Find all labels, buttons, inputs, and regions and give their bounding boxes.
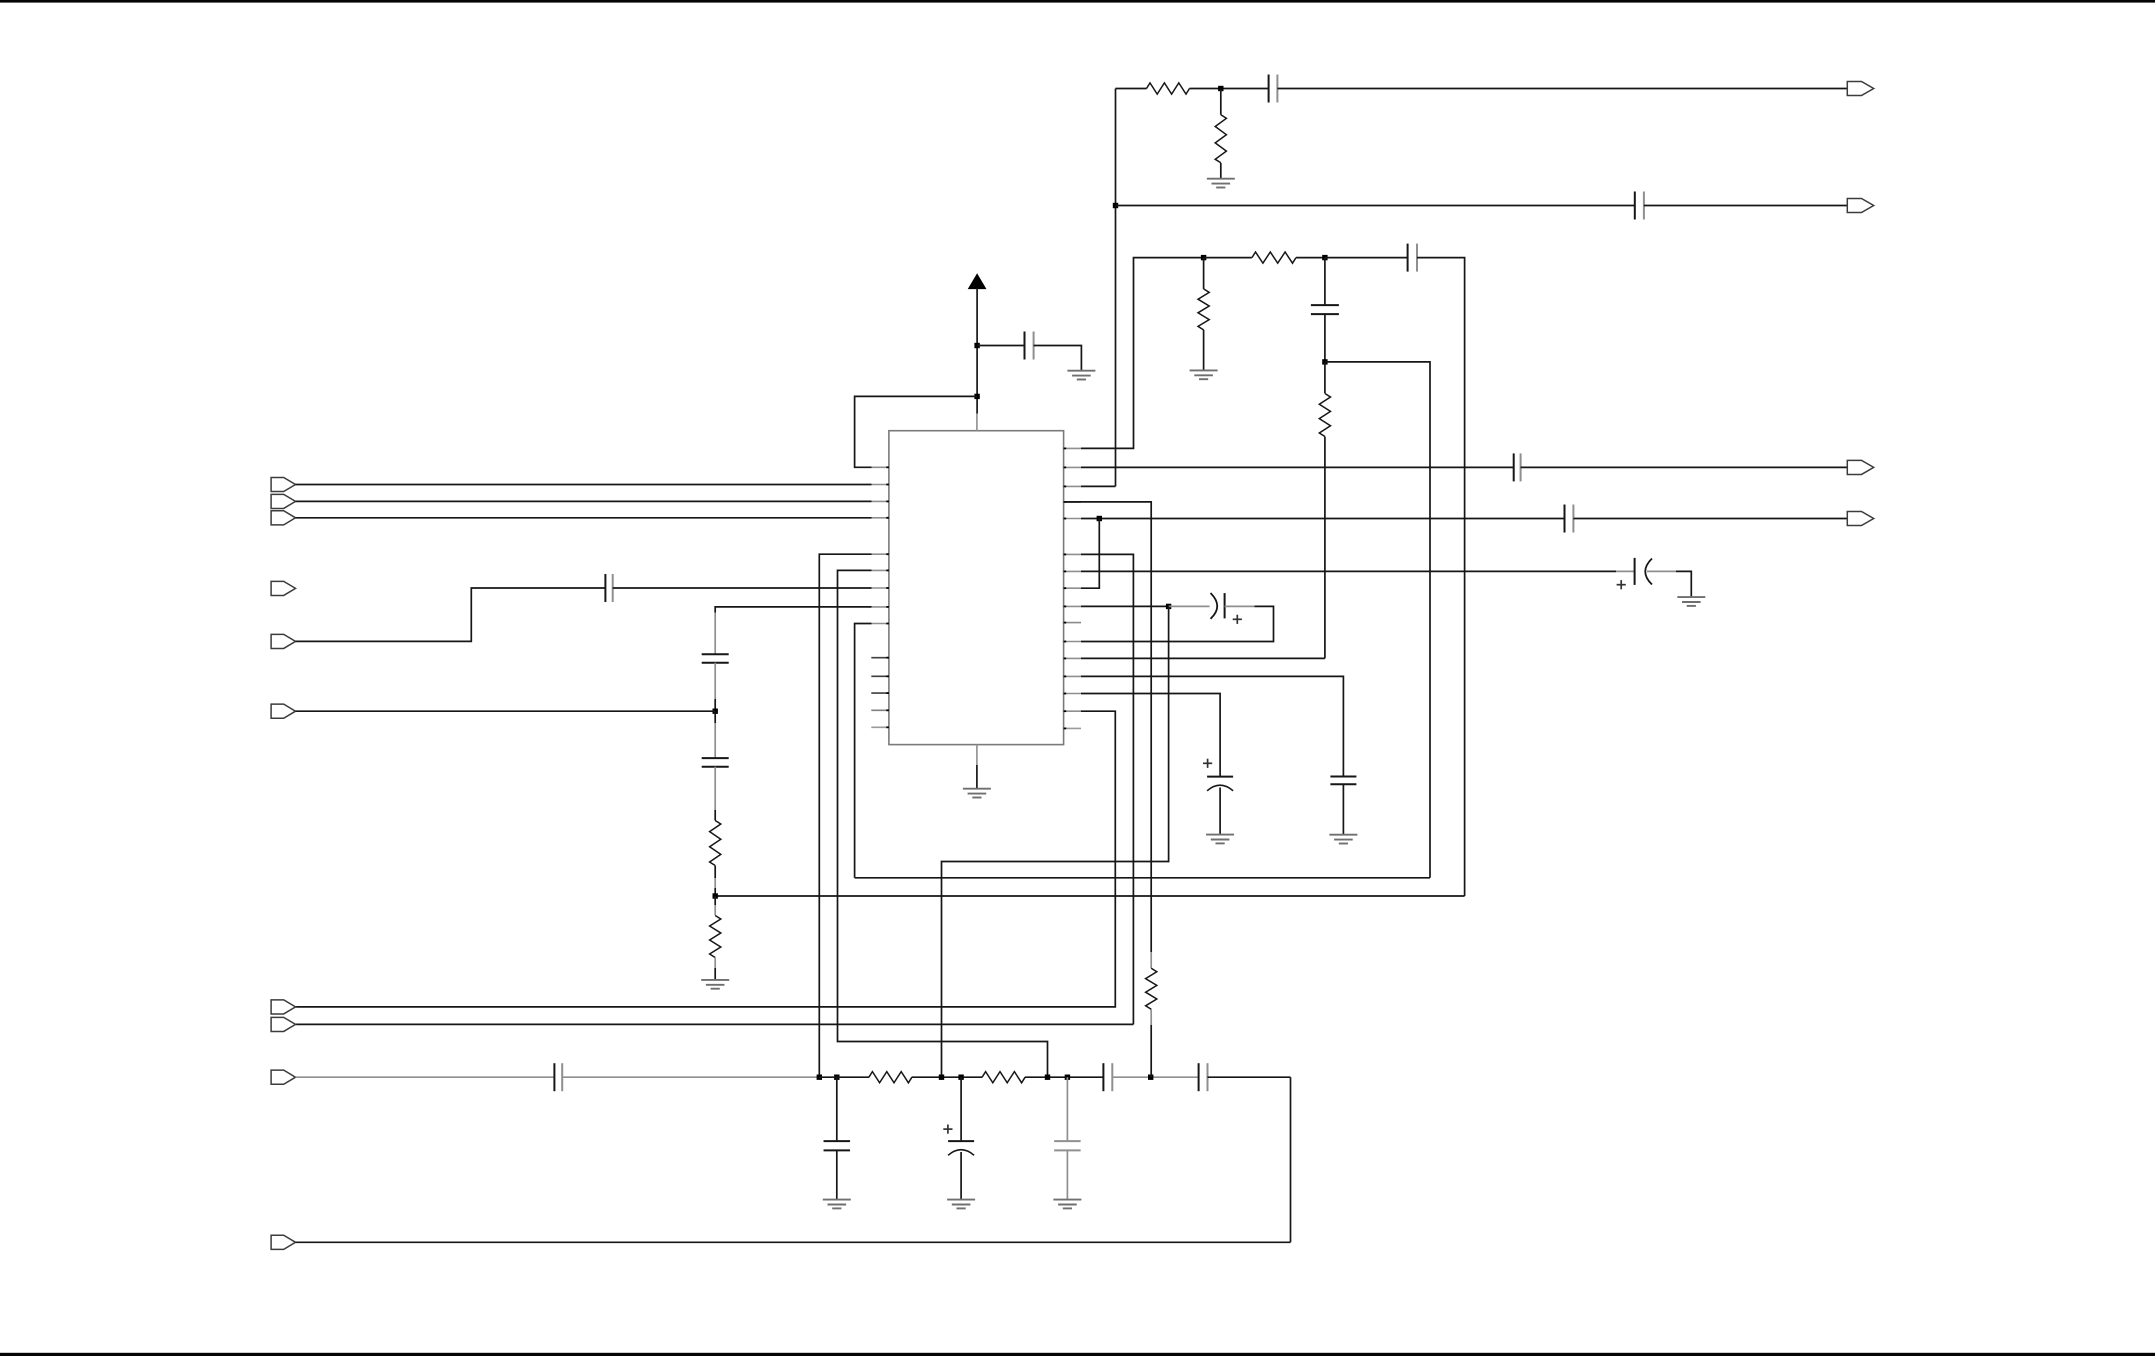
wire loop bottom B	[715, 895, 1464, 897]
wire corner down to P10 line	[1290, 1077, 1292, 1242]
plus label C13	[1203, 759, 1212, 768]
node pin5R junction	[1097, 516, 1102, 521]
IC U1 left pin stubs	[871, 467, 889, 727]
wire C16 to ground	[836, 1150, 838, 1199]
connector P3	[271, 511, 295, 525]
capacitor C2	[1635, 192, 1644, 220]
wire P1 to pin2L	[296, 484, 872, 486]
wire C20 to corner	[1208, 1076, 1291, 1078]
wire bottom seg b	[912, 1076, 983, 1078]
wire C5 to loop right	[1417, 258, 1465, 896]
wire net1 bottom to pin3R	[1081, 485, 1116, 487]
node net3 junction B	[1322, 255, 1327, 260]
wire pin5R to pin8R loop	[1081, 519, 1099, 589]
wire C8 exit gray segment	[1647, 570, 1676, 572]
capacitor C10	[605, 574, 612, 602]
wire C13 to ground	[1219, 788, 1221, 835]
wire pin9L down	[855, 624, 872, 878]
capacitor C5	[1408, 244, 1417, 272]
bottom border bar	[0, 1353, 2155, 1356]
capacitor C15	[554, 1063, 562, 1091]
node divider junction	[713, 893, 718, 898]
node bottom junction 6	[1065, 1075, 1070, 1080]
wire net3 A to R3	[1204, 257, 1252, 259]
capacitor C16	[824, 1077, 851, 1150]
connector P14	[1847, 511, 1873, 525]
wire pin7R to C8	[1081, 570, 1616, 572]
wire C9 loop gray segment	[1225, 605, 1255, 607]
connector P12	[1847, 198, 1873, 212]
node bottom junction 7	[1148, 1075, 1153, 1080]
ground G8	[701, 980, 729, 989]
wire loop bottom A	[855, 877, 1430, 879]
wire P9 to C15	[296, 1076, 555, 1078]
wire IC bottom pin to ground	[976, 765, 978, 789]
wire net1 top	[1116, 88, 1147, 90]
wire P5 riser	[296, 588, 606, 641]
ground G6	[1206, 835, 1234, 844]
wire C14 to ground	[1342, 784, 1344, 835]
wire pin6R down	[1081, 554, 1133, 1024]
capacitor C12	[702, 711, 729, 767]
resistor R7	[710, 896, 721, 980]
wire P6 to column	[296, 710, 716, 712]
connector P5	[271, 634, 295, 648]
wire C7 to output P14	[1573, 518, 1847, 520]
ground G7	[1329, 835, 1357, 844]
plus label C9	[1233, 615, 1242, 624]
ground G1	[1207, 179, 1235, 188]
connector P9	[271, 1070, 295, 1084]
wire VCC junction to pin1L	[855, 396, 978, 467]
wire R1 to C1	[1190, 88, 1269, 90]
ground G2	[1190, 370, 1218, 379]
wire P2 to pin3L	[296, 500, 872, 502]
capacitor C1	[1269, 75, 1278, 103]
node VCC junction 1	[974, 343, 979, 348]
wire R3 to junction B	[1296, 257, 1325, 259]
resistor R4	[1198, 258, 1209, 371]
resistor R10	[982, 1072, 1025, 1083]
wire pin5R to C7	[1081, 518, 1565, 520]
wire C9 loop to pin11R	[1081, 606, 1274, 641]
capacitor C14	[1330, 777, 1356, 785]
capacitor C11	[702, 654, 729, 663]
wire R8 head gray	[1150, 952, 1152, 968]
node pin9R junction	[1166, 604, 1171, 609]
node bottom junction 5	[1045, 1075, 1050, 1080]
capacitor C7	[1565, 505, 1574, 533]
resistor R9	[869, 1072, 912, 1083]
resistor R2	[1215, 89, 1226, 179]
capacitor C18	[1054, 1077, 1081, 1150]
node bottom junction 2	[834, 1075, 839, 1080]
wire P3 to pin4L	[296, 517, 872, 519]
resistor R5	[1319, 362, 1330, 659]
wire pin9R net down	[942, 606, 1169, 1077]
wire column lead gray a	[714, 613, 716, 655]
capacitor C4	[1025, 332, 1034, 360]
connector P8	[271, 1017, 295, 1031]
node net2 junction	[1113, 203, 1118, 208]
wire junction B to C5	[1325, 257, 1408, 259]
plus label C17	[943, 1125, 952, 1134]
ground G10	[947, 1200, 975, 1209]
ground G5	[1677, 597, 1705, 606]
wire pin13R to C14	[1081, 676, 1343, 776]
wire C8 entry gray segment	[1616, 570, 1635, 572]
top border bar	[0, 0, 2155, 3]
wire pin4R down	[1064, 502, 1152, 952]
wire C18 to ground	[1066, 1150, 1068, 1199]
wire bottom seg d	[1112, 1076, 1198, 1078]
connector P10	[271, 1235, 295, 1249]
wire bottom seg a	[819, 1076, 869, 1078]
resistor R6	[710, 767, 721, 896]
wire C1 to output P11	[1277, 88, 1847, 90]
ground G3	[1067, 371, 1095, 380]
resistor R8	[1146, 968, 1157, 1009]
wire C2 to output P12	[1644, 205, 1847, 207]
capacitor C6	[1514, 453, 1521, 481]
wire VCC to C4	[977, 345, 1024, 347]
node net3 junction A	[1201, 255, 1206, 260]
wire C10 to pin7L	[613, 587, 872, 589]
IC U1 body	[889, 431, 1064, 745]
resistor R3	[1252, 252, 1296, 263]
wire pin15R to connector P7	[296, 711, 1116, 1007]
wire C8 to ground	[1676, 571, 1691, 597]
wire C6 to output P13	[1521, 466, 1848, 468]
wire net2 to C2	[1116, 205, 1635, 207]
node bottom junction 4	[958, 1075, 963, 1080]
capacitor C20	[1199, 1063, 1208, 1091]
wire C3 to node C	[1324, 314, 1326, 362]
wire C15 to network	[562, 1076, 819, 1078]
wire pin5L down	[819, 554, 871, 1077]
connector P6	[271, 704, 295, 718]
wire C4 to ground	[1034, 346, 1082, 371]
ground G9	[823, 1200, 851, 1209]
wire pin6L down	[838, 570, 1048, 1077]
wire pin2R to C6	[1081, 466, 1514, 468]
connector P1	[271, 477, 295, 491]
wire node to C9	[1169, 605, 1210, 607]
node R1/R2/C1 junction	[1218, 86, 1223, 91]
connector P4	[271, 581, 295, 595]
capacitor C17 electrolytic	[948, 1077, 974, 1155]
capacitor C9 polarized	[1211, 593, 1225, 619]
wire node C to loop	[1325, 362, 1430, 878]
connector P2	[271, 494, 295, 508]
ground G4	[963, 789, 991, 798]
node net3 junction C	[1322, 359, 1327, 364]
wire pin8L to column	[715, 607, 871, 613]
node column junction	[713, 709, 718, 714]
wire bottom seg c	[1025, 1076, 1104, 1078]
capacitor C13 electrolytic	[1207, 777, 1233, 791]
wire pin14R to C13	[1081, 694, 1220, 777]
wire pin6R to connector P8	[296, 1023, 1134, 1025]
connector P11	[1847, 81, 1873, 95]
connector P7	[271, 1000, 295, 1014]
wire pin1R to net3	[1081, 258, 1204, 449]
IC U1 top pin stub	[976, 414, 978, 431]
power arrow VCC	[969, 274, 986, 413]
wire net1 vertical	[1115, 89, 1117, 487]
capacitor C3	[1311, 258, 1339, 315]
wire C17 to ground	[960, 1152, 962, 1200]
IC U1 right pin stubs	[1064, 448, 1081, 728]
wire R8 tail	[1150, 1009, 1152, 1077]
node bottom junction 1	[817, 1075, 822, 1080]
wire pin9R to node	[1081, 605, 1169, 607]
wire P10	[296, 1241, 1291, 1243]
node VCC junction 2	[974, 394, 979, 399]
resistor R1	[1147, 83, 1190, 94]
connector P13	[1847, 460, 1873, 474]
plus label C8	[1617, 580, 1626, 589]
IC U1 bottom pin stub	[976, 745, 978, 765]
wire R5 bottom to pin12R	[1081, 657, 1325, 659]
capacitor C19	[1103, 1063, 1112, 1091]
ground G11	[1053, 1200, 1081, 1209]
capacitor C8 polarized	[1635, 558, 1652, 585]
wire C11 to node	[714, 663, 716, 712]
node bottom junction 3	[939, 1075, 944, 1080]
